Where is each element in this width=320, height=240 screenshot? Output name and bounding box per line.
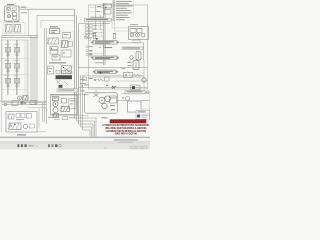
svg-text:57: 57 — [112, 86, 116, 90]
svg-text:2001 REV A OCT-00: 2001 REV A OCT-00 — [115, 132, 138, 136]
